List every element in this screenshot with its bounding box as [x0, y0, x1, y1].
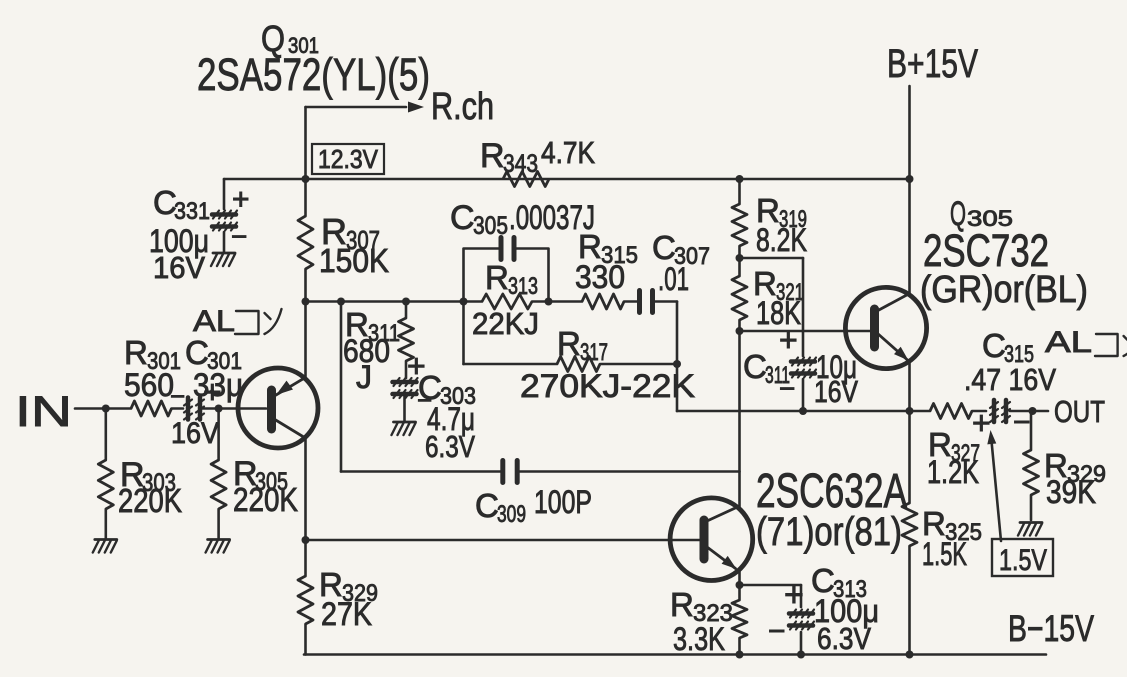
- capacitor C311: [791, 358, 816, 378]
- arrow to R.ch: [408, 102, 424, 113]
- transistor Q305 collector: [877, 294, 910, 312]
- svg-text:16V: 16V: [153, 250, 205, 285]
- resistor R329 39K: [1024, 450, 1039, 495]
- svg-text:R: R: [124, 334, 148, 371]
- svg-text:.47 16V: .47 16V: [964, 362, 1056, 397]
- resistor R305 branch wire: [217, 409, 220, 539]
- label R307: [321, 211, 380, 255]
- label C315 value .47 16V: [964, 362, 1056, 397]
- node 12.3V rail junction: [302, 175, 310, 183]
- wire 2SC632A emitter rail: [738, 572, 741, 655]
- svg-text:B−15V: B−15V: [1008, 608, 1094, 649]
- label C307: [652, 229, 710, 270]
- label C305: [450, 199, 595, 240]
- svg-text:R: R: [480, 137, 505, 175]
- label C313 plus: [784, 576, 804, 614]
- svg-text:+: +: [784, 576, 804, 614]
- node top wire at B+ rail: [906, 175, 914, 183]
- wire left rail lower: [304, 437, 307, 655]
- label R323: [670, 586, 733, 627]
- svg-text:3.3K: 3.3K: [673, 621, 725, 657]
- svg-text:343: 343: [503, 150, 538, 178]
- resistor R303 branch wire: [105, 409, 108, 539]
- wire emitter to C313: [740, 584, 802, 587]
- label C303 minus: [417, 385, 432, 415]
- label Q301 type 2SA572(YL)(5): [197, 49, 430, 100]
- ground C303: [392, 422, 416, 435]
- svg-text:317: 317: [580, 339, 608, 366]
- label 12.3V: [318, 144, 379, 174]
- svg-text:6.3V: 6.3V: [817, 621, 871, 656]
- label R.ch: [431, 86, 494, 128]
- label R305: [233, 455, 288, 496]
- label R313 value: [472, 306, 539, 341]
- wire Q305 emitter rail: [908, 362, 911, 412]
- label R319: [756, 192, 807, 233]
- wire C331 branch: [223, 179, 226, 252]
- transistor Q-2SC632A circle: [670, 498, 753, 581]
- node middle at R311: [402, 298, 410, 306]
- svg-text:+: +: [779, 322, 798, 358]
- wire B+ rail: [908, 86, 911, 295]
- svg-text:−: −: [231, 221, 247, 252]
- capacitor C313: [789, 610, 814, 630]
- wire Q305 base: [740, 330, 872, 333]
- node output at R329: [1029, 407, 1037, 415]
- wire x341 vertical: [340, 302, 343, 472]
- arrow 1.5V to C315 plus: [987, 430, 1001, 541]
- svg-text:22KJ: 22KJ: [472, 306, 539, 341]
- svg-text:270KJ-22K: 270KJ-22K: [520, 368, 695, 404]
- label C313 value 6.3V: [817, 621, 871, 656]
- node feedback at C311: [799, 407, 807, 415]
- label C301 plus: [203, 374, 222, 410]
- svg-text:560: 560: [124, 367, 174, 403]
- label C331: [153, 184, 210, 225]
- wire 2SC632A base: [306, 539, 701, 542]
- label R319 value: [756, 222, 807, 258]
- resistor R303: [98, 460, 113, 509]
- svg-text:C: C: [982, 327, 1006, 364]
- svg-text:C: C: [475, 487, 499, 524]
- svg-text:1.5V: 1.5V: [999, 544, 1047, 577]
- wire feedback horizontal: [677, 410, 910, 413]
- svg-text:−: −: [768, 615, 786, 648]
- node input R303 junction: [102, 405, 110, 413]
- node middle at x341: [337, 298, 345, 306]
- svg-text:4.7K: 4.7K: [541, 135, 595, 170]
- svg-text:305: 305: [473, 212, 508, 240]
- label OUT: [1054, 394, 1105, 429]
- label B+15V: [887, 42, 978, 86]
- label R329-39K: [1044, 447, 1106, 488]
- svg-text:2SA572(YL)(5): 2SA572(YL)(5): [197, 49, 430, 100]
- svg-text:−: −: [170, 381, 185, 411]
- svg-text:.01: .01: [658, 261, 689, 297]
- resistor R301: [131, 401, 172, 416]
- svg-text:OUT: OUT: [1054, 394, 1105, 429]
- node R319 R321 junction: [736, 254, 744, 262]
- label C311 plus: [779, 322, 798, 358]
- wire output: [910, 410, 1049, 413]
- capacitor C307: [640, 291, 653, 313]
- label C311 value 16V: [814, 374, 858, 409]
- resistor R325: [902, 503, 917, 546]
- label C301 value: [193, 367, 243, 403]
- label C313: [811, 562, 867, 603]
- label C311 minus: [779, 373, 795, 404]
- label R311 value J: [356, 359, 372, 395]
- ground R303: [93, 540, 117, 553]
- node bottom at R325: [906, 651, 914, 659]
- svg-text:AL: AL: [1045, 326, 1092, 359]
- transistor Q301 circle: [238, 368, 318, 448]
- label C301 minus: [170, 381, 185, 411]
- node top wire at R319 branch: [736, 175, 744, 183]
- label C313 minus: [768, 615, 786, 648]
- label C331 value 16V: [153, 250, 205, 285]
- wire R325 rail: [908, 411, 911, 655]
- svg-text:1.2K: 1.2K: [927, 454, 979, 490]
- svg-text:12.3V: 12.3V: [318, 144, 379, 174]
- label C315 plus: [972, 405, 991, 441]
- label R323 value: [673, 621, 725, 657]
- label C309 value: [534, 484, 592, 520]
- label (71)or(81): [756, 510, 902, 554]
- svg-text:16V: 16V: [814, 374, 858, 409]
- resistor R321: [732, 276, 747, 320]
- svg-text:+: +: [972, 405, 991, 441]
- svg-text:R: R: [557, 325, 581, 362]
- label C301 16V: [171, 417, 219, 450]
- label AL-con input: [193, 305, 282, 338]
- svg-text:16V: 16V: [171, 417, 219, 450]
- label Q301: [261, 18, 319, 59]
- label C315: [982, 327, 1034, 368]
- box 12.3V: [312, 144, 384, 174]
- ground R329-39K: [1018, 523, 1042, 536]
- label C311 value 10u: [816, 349, 857, 385]
- resistor R319: [732, 204, 747, 246]
- wire R.ch takeoff horizontal: [306, 106, 407, 109]
- label R327: [928, 426, 980, 467]
- label IN: [15, 388, 72, 436]
- label C315 minus: [1013, 406, 1031, 439]
- label C331 value 100u: [149, 223, 209, 259]
- label R329-27K: [319, 566, 378, 607]
- wire input: [75, 407, 266, 410]
- transistor Q301 emitter: [276, 378, 305, 395]
- wire R311 branch: [405, 302, 408, 379]
- capacitor C305: [501, 238, 514, 260]
- svg-text:−: −: [779, 373, 795, 404]
- label C313 value 100u: [814, 593, 879, 629]
- resistor R311: [399, 318, 414, 361]
- label R329-27K value: [321, 596, 372, 632]
- node left rail to base: [302, 536, 310, 544]
- label R311: [345, 306, 400, 347]
- resistor R307: [298, 216, 313, 269]
- node input R305 junction: [215, 405, 223, 413]
- transistor Q301 base bar: [267, 390, 276, 429]
- node R317 at x677: [673, 360, 681, 368]
- svg-text:+: +: [232, 183, 250, 216]
- svg-text:R: R: [670, 586, 694, 623]
- resistor R329 27K: [298, 576, 313, 624]
- label 1.5V: [999, 544, 1047, 577]
- wire C311 branch: [740, 258, 804, 411]
- capacitor C309: [503, 461, 517, 483]
- label R321: [753, 265, 804, 306]
- wire middle horizontal: [306, 300, 678, 303]
- transistor Q305 circle: [845, 287, 926, 368]
- node middle at C305 box right: [545, 298, 553, 306]
- wire C305 box: [464, 249, 549, 302]
- svg-text:1.5K: 1.5K: [922, 536, 967, 572]
- label Q305: [950, 195, 1013, 233]
- label R329-39K value: [1046, 474, 1096, 510]
- box 1.5V: [992, 539, 1053, 576]
- node output junction: [906, 407, 914, 415]
- label Q305 type (GR)or(BL): [920, 269, 1088, 311]
- capacitor C301: [184, 398, 204, 420]
- transistor Q305 base bar: [870, 309, 879, 347]
- capacitor C303: [393, 378, 418, 398]
- resistor R315: [582, 294, 624, 309]
- svg-text:R: R: [485, 259, 509, 296]
- node Q305 base junction: [736, 327, 744, 335]
- label R303: [120, 456, 176, 497]
- svg-text:220K: 220K: [118, 482, 182, 519]
- label R315: [578, 228, 638, 269]
- wire top horizontal B+ feed: [224, 178, 910, 181]
- label R343: [480, 137, 538, 178]
- label R311 value 680: [343, 333, 390, 369]
- transistor Q305 emitter: [877, 333, 909, 361]
- label R327 value: [927, 454, 979, 490]
- capacitor C315: [990, 400, 1010, 422]
- transistor Q301 collector: [274, 419, 305, 438]
- transistor Q-2SC632A collector: [707, 507, 739, 522]
- wire R319 chain: [738, 179, 741, 507]
- label C303: [418, 369, 476, 410]
- label R325: [922, 505, 982, 546]
- wire bottom rail B-: [304, 653, 1046, 656]
- label R313: [485, 259, 538, 300]
- label R307 value: [319, 242, 389, 279]
- transistor Q-2SC632A base bar: [700, 520, 709, 559]
- svg-text:220K: 220K: [233, 481, 298, 518]
- label R317 value: [520, 368, 695, 404]
- svg-text:39K: 39K: [1046, 474, 1096, 510]
- label R301: [124, 334, 181, 375]
- wire x677 vertical: [676, 302, 679, 412]
- label R315 value: [575, 259, 625, 295]
- resistor R323: [732, 600, 747, 638]
- resistor R305: [211, 460, 226, 509]
- svg-text:6.3V: 6.3V: [425, 429, 475, 464]
- resistor R313: [482, 294, 532, 309]
- ground R305: [206, 540, 230, 553]
- svg-text:100P: 100P: [534, 484, 592, 520]
- svg-text:R.ch: R.ch: [431, 86, 494, 128]
- svg-text:C: C: [450, 199, 475, 237]
- node middle at left rail: [302, 298, 310, 306]
- resistor R317: [557, 357, 600, 372]
- label R301 value: [124, 367, 174, 403]
- ground C331: [211, 253, 235, 266]
- label C315 AL-con: [1045, 326, 1127, 359]
- label R343 value: [541, 135, 595, 170]
- label R305 value: [233, 481, 298, 518]
- svg-text:331: 331: [174, 198, 210, 225]
- label C331 minus: [231, 221, 247, 252]
- svg-text:−: −: [1013, 406, 1031, 439]
- label 2SC632A: [756, 465, 907, 518]
- svg-text:AL: AL: [193, 305, 235, 338]
- label C331 plus: [232, 183, 250, 216]
- svg-text:(GR)or(BL): (GR)or(BL): [920, 269, 1088, 311]
- label B-15V: [1008, 608, 1094, 649]
- svg-text:313: 313: [508, 273, 538, 300]
- svg-text:309: 309: [497, 501, 526, 528]
- node emitter junction: [736, 581, 744, 589]
- label R321 value: [756, 295, 801, 331]
- svg-text:B+15V: B+15V: [887, 42, 978, 86]
- label C303 value 6.3V: [425, 429, 475, 464]
- svg-text:J: J: [356, 359, 372, 395]
- wire R329-39K branch: [1030, 411, 1033, 520]
- label C303 value 4.7u: [427, 401, 475, 437]
- node middle at C305 box left: [460, 298, 468, 306]
- svg-text:8.2K: 8.2K: [756, 222, 807, 258]
- svg-text:+: +: [203, 374, 222, 410]
- svg-text:27K: 27K: [321, 596, 372, 632]
- svg-text:(71)or(81): (71)or(81): [756, 510, 902, 554]
- wire R317 left: [464, 302, 678, 365]
- label C307 value: [658, 261, 689, 297]
- svg-text:150K: 150K: [319, 242, 389, 279]
- label C311: [743, 348, 790, 389]
- svg-text:330: 330: [575, 259, 625, 295]
- svg-text:C: C: [185, 334, 209, 371]
- label R325 value: [922, 536, 967, 572]
- wire C303 to ground: [403, 394, 406, 421]
- capacitor C331: [212, 211, 237, 231]
- transistor Q-2SC632A emitter: [707, 547, 737, 569]
- label Q305 type 2SC732: [923, 225, 1049, 276]
- label C303 plus: [407, 348, 426, 384]
- resistor R343: [503, 172, 549, 187]
- resistor R327: [930, 404, 972, 419]
- svg-text:C: C: [743, 348, 767, 385]
- wire C313 branch: [800, 585, 803, 655]
- label C309: [475, 487, 526, 528]
- wire C309 horizontal: [341, 470, 740, 473]
- label R303 value: [118, 482, 182, 519]
- svg-text:IN: IN: [15, 388, 72, 436]
- node bottom at R323: [736, 651, 744, 659]
- wire left rail upper: [304, 107, 307, 379]
- label R317: [557, 325, 608, 366]
- label C301: [185, 334, 242, 375]
- node bottom at C313: [797, 651, 805, 659]
